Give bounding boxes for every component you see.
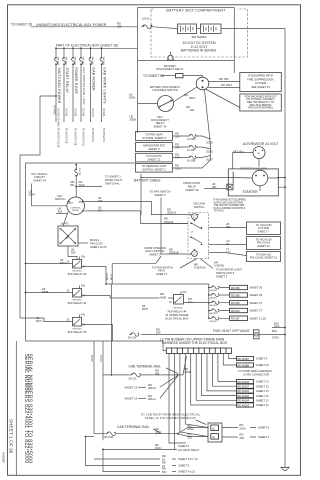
label: TO PUMP AREA HARNESS 31 PIN CONNECTOR <box>238 369 272 377</box>
svg-text:1A-CB6: 1A-CB6 <box>187 138 196 141</box>
label: BATTERY CABLE <box>134 179 161 183</box>
svg-text:827A: 827A <box>60 261 66 265</box>
breaker 2A-CB3 row <box>209 293 263 300</box>
starter solenoid circle <box>252 170 268 191</box>
box: TO VACUUM SYSTEM SHEET 7 <box>247 222 281 235</box>
svg-text:TO SHEET 3: TO SHEET 3 <box>105 175 121 179</box>
svg-text:10A-CB1: 10A-CB1 <box>82 57 85 66</box>
svg-text:35A: 35A <box>58 210 63 214</box>
svg-text:1A-CB8: 1A-CB8 <box>187 160 196 163</box>
svg-text:15A-CB7: 15A-CB7 <box>91 57 94 66</box>
svg-text:2A-CB3: 2A-CB3 <box>210 297 218 300</box>
svg-text:RD 366: RD 366 <box>231 287 240 290</box>
circuit breaker 10A-M (main feed) <box>141 18 153 29</box>
battery disconnect relay coil line <box>138 52 235 61</box>
svg-text:614: 614 <box>188 300 193 304</box>
sheet13 stub A2 <box>125 376 178 391</box>
svg-text:4608: 4608 <box>160 295 166 299</box>
node: TO SHEET 28 (top left) <box>11 23 32 27</box>
svg-text:LOCKABLE SWITCH: LOCKABLE SWITCH <box>152 88 178 92</box>
wire LB 829 below X box <box>68 246 77 260</box>
sidebar: serial numbers column 2 <box>27 354 33 464</box>
wire RD 351A service light row <box>173 90 211 171</box>
svg-text:29: 29 <box>226 242 229 246</box>
svg-text:253B: 253B <box>155 430 161 434</box>
wire: vertical feed x=103 <box>100 341 103 440</box>
wire RD 253 sheet 4 <box>222 433 270 440</box>
label: BATTERY DISCONNECT LOCKABLE SWITCH <box>150 85 181 92</box>
svg-text:CAB TERMINAL RAIL: CAB TERMINAL RAIL <box>117 425 150 429</box>
label: FUEL SHUT OFF VALVE <box>213 329 251 333</box>
wire LB 827C to relay3 <box>20 316 73 323</box>
node: TO SHEET 28 (disconnect) <box>143 74 164 78</box>
svg-text:177: 177 <box>226 250 231 254</box>
svg-text:SYSTEM, SHEET 8: SYSTEM, SHEET 8 <box>142 136 166 140</box>
svg-text:TO SHEET 4,28: TO SHEET 4,28 <box>74 128 77 146</box>
svg-text:G534: G534 <box>272 336 279 340</box>
svg-text:RUN RELAY #2: RUN RELAY #2 <box>68 272 87 276</box>
svg-text:A/C HEAT RELAY: A/C HEAT RELAY <box>178 448 200 452</box>
svg-text:RELAY: RELAY <box>188 184 197 188</box>
sheet box: TO PRE-HEAT SYSTEM SHEET 8 <box>136 132 173 141</box>
svg-text:PIN 9: PIN 9 <box>158 269 165 273</box>
svg-text:RD 481A5: RD 481A5 <box>238 395 250 398</box>
svg-text:KEY SIGNAL: KEY SIGNAL <box>32 172 48 176</box>
svg-text:TO CAB ROOF FROM REAR ELECTRIC: TO CAB ROOF FROM REAR ELECTRICAL <box>141 412 201 416</box>
label: TO SHEET 3 WORK LIGHT SWITCH #1 <box>105 175 122 186</box>
svg-text:481A2: 481A2 <box>148 386 156 390</box>
svg-text:FUEL SHUT OFF VALVE: FUEL SHUT OFF VALVE <box>213 329 251 333</box>
wire box RD 481A3 <box>237 403 270 407</box>
svg-text:IN UPPER FRAME: IN UPPER FRAME <box>166 313 189 317</box>
svg-text:SHEET 21: SHEET 21 <box>148 157 161 161</box>
svg-text:SHEET 3: SHEET 3 <box>178 464 190 468</box>
svg-text:SHEET 4: SHEET 4 <box>258 435 270 439</box>
svg-text:350: 350 <box>224 77 229 81</box>
wire LB 827A <box>25 258 73 265</box>
wire label RD 308 <box>117 22 122 29</box>
wire RD 4608 label <box>160 292 174 299</box>
svg-text:TO SERVICE LIGHT: TO SERVICE LIGHT <box>142 164 167 168</box>
svg-text:87a: 87a <box>81 285 86 288</box>
svg-text:RD 027: RD 027 <box>107 272 109 280</box>
label: TO CAB ROOF FROM REAR ELECTRICAL PANEL <box>141 412 206 424</box>
label: VACUUM SWITCH <box>193 202 205 210</box>
svg-text:RD 401: RD 401 <box>65 108 68 117</box>
label BAT (B+) <box>233 150 244 154</box>
svg-text:351A: 351A <box>226 83 232 87</box>
connector symbol on to-sheet-28 wire <box>161 74 203 78</box>
starter ground stud <box>227 184 233 190</box>
svg-text:RD 481A8: RD 481A8 <box>238 381 250 384</box>
svg-text:481B: 481B <box>185 370 191 374</box>
wire: breaker to battery <box>153 27 178 29</box>
fuel valve symbol <box>253 330 259 339</box>
svg-text:10A-CB9: 10A-CB9 <box>57 57 60 66</box>
wire RD 353A1B <box>161 247 188 254</box>
svg-text:BATTERIES IN SERIES.: BATTERIES IN SERIES. <box>181 49 217 53</box>
svg-text:SHEET 27: SHEET 27 <box>250 301 263 305</box>
svg-text:FIRE SUPPRESSION: FIRE SUPPRESSION <box>247 77 273 81</box>
wire: unswitched electrical box power feed <box>31 26 138 28</box>
wire: contact to lockable switch (diagonal) <box>174 87 197 102</box>
breaker 1A-CB7 row <box>173 143 214 154</box>
label 50-470 above X box <box>61 212 69 226</box>
svg-text:G1A: G1A <box>274 324 280 328</box>
svg-text:BLK: BLK <box>272 329 277 333</box>
net label: UNSWITCHED ELECTRICAL BOX POWER <box>36 23 107 27</box>
wire RD 534 with fuse 5A-C14 <box>128 327 253 339</box>
bus bracket line under header <box>56 47 138 49</box>
vacuum pressure switch G (top) <box>189 214 199 222</box>
wire box RD 481B7 <box>237 356 268 360</box>
svg-text:253A: 253A <box>240 426 246 430</box>
svg-text:KEY SWITCH RUN / ACC: KEY SWITCH RUN / ACC <box>82 68 86 105</box>
svg-text:THE IGNITION PANEL: THE IGNITION PANEL <box>248 107 274 110</box>
svg-text:481A1: 481A1 <box>148 397 156 401</box>
wire: main feed y=284 <box>105 283 209 285</box>
svg-text:253A: 253A <box>188 427 194 431</box>
svg-text:SHEET 2: SHEET 2 <box>149 253 161 257</box>
svg-text:CAB TERMINAL RAIL: CAB TERMINAL RAIL <box>129 364 162 368</box>
sheet box: TO SERVICE LIGHT SWITCH SHEET 2 <box>136 164 173 173</box>
svg-text:SWITCH, SHEET 2: SWITCH, SHEET 2 <box>142 168 166 172</box>
svg-text:RUN RELAY #3: RUN RELAY #3 <box>68 330 87 334</box>
circuit breaker 15A-CB4 column: POWER ROOF <box>72 47 78 145</box>
wire LB 35A left of key switch <box>56 207 68 214</box>
svg-text:SHEET 5: SHEET 5 <box>154 193 166 197</box>
wire LB 827F <box>142 304 148 311</box>
svg-text:SHEET 9: SHEET 9 <box>148 147 160 151</box>
svg-text:SHEET 27: SHEET 27 <box>250 309 263 313</box>
svg-text:PANEL 12 PIN CONNECTOR BLACK: PANEL 12 PIN CONNECTOR BLACK <box>145 416 196 420</box>
svg-text:35AA: 35AA <box>29 193 36 197</box>
svg-text:RD 25: RD 25 <box>91 355 94 362</box>
svg-text:HARVESTER RTC: HARVESTER RTC <box>143 143 166 147</box>
wire box RD 481B8 <box>237 363 270 367</box>
svg-text:BATTERY BOX COMPARTMENT: BATTERY BOX COMPARTMENT <box>166 9 226 13</box>
svg-text:CIRCUIT: CIRCUIT <box>34 175 45 179</box>
svg-text:RELAY: RELAY <box>72 209 79 212</box>
svg-text:827F: 827F <box>142 307 148 311</box>
svg-text:827B: 827B <box>42 290 48 294</box>
svg-text:POWER ROOF: POWER ROOF <box>74 68 78 95</box>
wire box RD 481A5 <box>237 394 270 398</box>
wire: upper cab rail with fuse 5A-C21 <box>103 368 179 380</box>
svg-text:10A-CB3: 10A-CB3 <box>102 57 105 66</box>
svg-text:2A-CB2: 2A-CB2 <box>210 289 218 292</box>
svg-text:SHEET 22: SHEET 22 <box>257 244 270 248</box>
svg-text:RD 400: RD 400 <box>57 108 60 117</box>
svg-text:353A1B: 353A1B <box>169 250 179 254</box>
svg-text:SHEET 10: SHEET 10 <box>256 363 269 367</box>
svg-text:RD 654: RD 654 <box>231 310 240 313</box>
wire LB 827 from key switch <box>85 205 189 223</box>
svg-text:RD: RD <box>219 77 223 81</box>
svg-text:TO SHEET 28: TO SHEET 28 <box>65 128 68 144</box>
wire LB 830 to vacuum system box <box>209 222 247 229</box>
svg-text:SHEET 13: SHEET 13 <box>256 389 269 393</box>
svg-text:10A-C08: 10A-C08 <box>104 436 114 439</box>
wire: vertical feed x=94 <box>91 341 94 434</box>
wire RD 481B to busbar <box>178 356 191 375</box>
svg-text:SHEET 38: SHEET 38 <box>186 188 199 192</box>
svg-text:SWITCH #1: SWITCH #1 <box>105 182 120 186</box>
svg-text:SHEET 26: SHEET 26 <box>250 286 263 290</box>
svg-text:SERIAL NUMBERS 830*4001 TO 830: SERIAL NUMBERS 830*4001 TO 830*5000 <box>27 354 33 464</box>
wire RD 253A sheet 6 <box>222 423 270 430</box>
rotated net labels RD 027 <box>107 272 113 280</box>
wire: relay1 feed y=298 <box>110 297 160 299</box>
svg-text:BAT: BAT <box>69 202 74 205</box>
svg-text:SHEET 34: SHEET 34 <box>154 124 167 128</box>
wire: relay1 out <box>82 296 111 299</box>
svg-text:SHEET 22,25: SHEET 22,25 <box>90 245 107 249</box>
wire: battery interlink <box>197 28 201 30</box>
label: STARTER SOLENOID <box>239 167 272 171</box>
wire: contact down to starter feed (diagonal) <box>186 89 240 112</box>
svg-text:491: 491 <box>70 183 75 187</box>
circuit breaker 10A-CB2 column: START RELAY <box>63 47 69 143</box>
svg-text:SWITCH PIN 9: SWITCH PIN 9 <box>216 271 235 275</box>
svg-text:RD 02: RD 02 <box>111 273 113 280</box>
battery disconnect contact (circle) <box>196 77 209 90</box>
svg-text:LIGHT SWITCH-: LIGHT SWITCH- <box>145 249 165 253</box>
sheet box: TO FAN RTC SHEET 21 <box>136 153 173 162</box>
svg-text:(1): (1) <box>212 436 215 439</box>
battery B1 <box>178 24 197 34</box>
lockable switch (circle with lever) <box>158 96 174 112</box>
svg-text:*3462990*: *3462990* <box>2 452 5 463</box>
svg-text:2A-CB5: 2A-CB5 <box>210 312 218 315</box>
svg-text:SHEET 12: SHEET 12 <box>256 399 269 403</box>
svg-text:PIN C2=26: PIN C2=26 <box>257 241 271 245</box>
wire LB 828 from key switch <box>85 196 189 215</box>
label: BATTERIES <box>192 35 207 39</box>
svg-text:SHEET 13: SHEET 13 <box>256 380 269 384</box>
svg-text:TO FAN SWITCH: TO FAN SWITCH <box>149 190 170 194</box>
wire box RD 481A6 <box>237 389 270 393</box>
vacuum contact arm 1 <box>190 223 202 235</box>
svg-text:ALTERNATOR 24 VOLT: ALTERNATOR 24 VOLT <box>243 142 278 146</box>
svg-text:RD 481A7: RD 481A7 <box>238 386 250 389</box>
connector block (2 pin) <box>208 423 222 442</box>
svg-text:SHEET 11,28: SHEET 11,28 <box>250 316 267 320</box>
run relay #1 <box>67 285 87 306</box>
wire RD 353A10 <box>167 208 177 215</box>
svg-text:SWITCH: SWITCH <box>55 197 66 201</box>
busbar pin drops to cab rail <box>169 353 208 449</box>
svg-text:86 RD/85: 86 RD/85 <box>174 307 184 309</box>
svg-text:SHEET 2: SHEET 2 <box>216 274 228 278</box>
wire: starter outputs to ground bus <box>227 177 286 190</box>
svg-text:SHEET 6: SHEET 6 <box>178 444 190 448</box>
label: FROM INTERIOR LIGHT SWITCH SHEET 2 <box>144 246 166 257</box>
breaker 2A-CB4 row <box>209 301 263 308</box>
lower rail row 1 with fuse 10A-C08 <box>94 427 179 439</box>
svg-text:G: G <box>194 216 196 219</box>
svg-text:PART OF ELECTRICAL BOX (SHEET: PART OF ELECTRICAL BOX (SHEET 28) <box>56 43 118 47</box>
wire: switched power branch to key-signal step <box>20 95 57 318</box>
svg-text:SHEET 12: SHEET 12 <box>256 394 269 398</box>
wire LB 487 to starter solenoid <box>204 182 227 189</box>
wire box RD 481A4 <box>237 398 270 402</box>
svg-text:HARNESS UNDER THE ELECTRICAL B: HARNESS UNDER THE ELECTRICAL BOX <box>162 341 228 345</box>
wire BLK G1A <box>272 321 286 328</box>
svg-text:RD 400D: RD 400D <box>57 117 60 127</box>
sheet13 stub A1 <box>125 376 178 401</box>
svg-text:0.353A10: 0.353A10 <box>194 266 206 270</box>
wire: battery cable to starter <box>140 177 228 179</box>
wire: interior light feed <box>112 256 161 284</box>
svg-text:ELECTRICAL BOX: ELECTRICAL BOX <box>166 316 189 320</box>
svg-text:829: 829 <box>71 251 76 255</box>
label: CAB TERMINAL RAIL (upper) <box>129 364 178 373</box>
wire BLK G534 <box>259 329 286 339</box>
wire: right vertical ground bus <box>284 29 286 468</box>
busbar pin fan to right stack <box>191 353 237 405</box>
svg-text:50-470: 50-470 <box>61 223 69 226</box>
breaker 2A-CB6 row <box>209 316 266 323</box>
svg-text:BATTERY DISCONNECT: BATTERY DISCONNECT <box>150 85 181 89</box>
wire: inner box bottom to busbar left <box>163 341 166 351</box>
run relay #3 <box>67 314 87 335</box>
svg-text:RD 403: RD 403 <box>82 108 85 117</box>
wire: lockable switch to left bus <box>138 103 158 105</box>
svg-text:TO VACUUM: TO VACUUM <box>256 223 273 227</box>
run relay #4 <box>169 291 187 310</box>
label: TO INTERIOR LIGHT SWITCH PIN 9 SHEET 2 <box>216 268 242 279</box>
svg-text:SHEET 4,6,21: SHEET 4,6,21 <box>178 470 196 474</box>
svg-text:5A-C14: 5A-C14 <box>128 337 137 340</box>
svg-text:830: 830 <box>226 225 231 229</box>
svg-text:15A-CB4: 15A-CB4 <box>74 57 77 66</box>
svg-text:BATTERIES: BATTERIES <box>192 35 207 39</box>
circuit breaker 15A-CB7 column: CAB POWER <box>89 47 95 142</box>
note: 24 volt dc system <box>181 41 217 53</box>
circuit breaker 10A-CB9 column: SWITCHED POWER <box>55 47 61 147</box>
svg-text:TO SHEET 3: TO SHEET 3 <box>91 128 94 143</box>
lower rail row 3 <box>103 443 200 452</box>
svg-text:FROM INTERIOR: FROM INTERIOR <box>144 246 166 250</box>
svg-text:87a: 87a <box>81 256 86 259</box>
wire box RD 481A8 <box>237 379 270 383</box>
svg-text:87a: 87a <box>81 314 86 317</box>
wire LB 827B <box>25 287 73 294</box>
svg-text:10A-CB2: 10A-CB2 <box>65 57 68 66</box>
breaker 2A-CB2 row <box>209 285 263 292</box>
svg-text:350A: 350A <box>129 96 135 100</box>
battery box compartment (dashed) <box>151 7 248 57</box>
svg-text:487: 487 <box>212 185 217 189</box>
label BCK3-1 PIN C2-50 SHEET 22,25 <box>78 238 107 249</box>
vacuum pressure switch G (bottom) <box>189 249 197 256</box>
lower rail row 4 <box>94 454 198 461</box>
svg-text:SHEET 6: SHEET 6 <box>258 426 270 430</box>
wire: alternator B+ down to starter <box>233 153 259 170</box>
circuit breaker 10A-CB1 column: KEY SWITCH RUN / ACC <box>80 47 86 146</box>
svg-text:TO INTERIOR LIGHT: TO INTERIOR LIGHT <box>216 268 242 272</box>
sidebar: serial numbers column 1 <box>23 354 29 464</box>
wire: relay3 out <box>82 325 113 342</box>
sheet box: HARVESTER RTC SHEET 9 <box>136 143 173 152</box>
wire RD 353A19 <box>161 217 188 224</box>
svg-text:TO SHEET 3,4,5: TO SHEET 3,4,5 <box>82 128 85 147</box>
box: TO WCA3-16 PIN C2=26 SHEET 22 <box>247 237 281 250</box>
vacuum contact arm 2 <box>190 237 202 246</box>
wire RD 350 to fire box <box>209 77 240 82</box>
svg-text:RD 2,44: RD 2,44 <box>91 108 94 117</box>
svg-text:TO FAN SWITCH: TO FAN SWITCH <box>152 265 173 269</box>
svg-text:TO SHEET 28: TO SHEET 28 <box>143 74 164 78</box>
svg-text:529: 529 <box>175 135 180 139</box>
wire RD 614 relay4 out <box>184 297 209 304</box>
svg-text:253: 253 <box>188 436 193 440</box>
svg-text:SHEET 34: SHEET 34 <box>33 179 46 183</box>
wire RD 253 to connector <box>178 433 208 440</box>
svg-text:344: 344 <box>175 146 180 150</box>
svg-text:308: 308 <box>117 25 122 29</box>
wire: fan switch drop <box>160 198 162 255</box>
wire LB 35AA from key signal <box>29 184 68 206</box>
svg-text:87a: 87a <box>183 291 188 294</box>
svg-text:TO WCA3-16: TO WCA3-16 <box>255 237 272 241</box>
svg-text:2A-CB6: 2A-CB6 <box>210 320 218 323</box>
breaker 2A-CB5 row <box>209 308 263 315</box>
note box: for machines without F/S <box>240 94 281 111</box>
svg-text:SHEET 13: SHEET 13 <box>125 385 138 389</box>
alternator <box>253 147 265 159</box>
svg-text:PIN C2=28, SHEET 21: PIN C2=28, SHEET 21 <box>250 256 278 260</box>
svg-text:351A: 351A <box>189 96 195 100</box>
busbar <box>166 348 231 353</box>
wire OR 0.353A9 to interior light <box>200 259 225 269</box>
wire: battery compartment loop (top) <box>138 8 235 73</box>
lower rail row 5 <box>85 436 190 468</box>
svg-text:10A-M: 10A-M <box>142 18 149 21</box>
svg-text:(1): (1) <box>212 427 215 430</box>
svg-text:RD 368: RD 368 <box>231 294 240 297</box>
svg-text:351A: 351A <box>175 167 181 171</box>
svg-text:RD 481A6: RD 481A6 <box>238 390 250 393</box>
label: BATTERY DISCONNECT RELAY <box>156 64 183 71</box>
wire RD 351A to fire box <box>208 83 240 88</box>
svg-text:491A: 491A <box>79 183 85 187</box>
svg-text:RD 481A4: RD 481A4 <box>238 400 250 403</box>
label: KEY DISCONNECT RELAY SHEET 34 <box>151 115 169 129</box>
svg-text:SHEET 5: SHEET 5 <box>156 272 168 276</box>
svg-text:350B: 350B <box>130 118 136 122</box>
svg-text:RD 481B8: RD 481B8 <box>238 364 250 367</box>
svg-text:SYSTEM: SYSTEM <box>258 226 270 230</box>
svg-text:TO PIN 5.: TO PIN 5. <box>214 210 225 213</box>
svg-text:827: 827 <box>98 209 103 213</box>
relay block (X box) <box>58 226 78 246</box>
svg-text:SHEET 6: SHEET 6 <box>256 357 268 361</box>
svg-text:RD 656: RD 656 <box>231 302 240 305</box>
svg-text:TO SHEET 3,3,28: TO SHEET 3,3,28 <box>57 128 60 148</box>
wire RD 253A to connector <box>178 424 208 434</box>
svg-text:0.353A9: 0.353A9 <box>214 264 225 268</box>
svg-text:STC: STC <box>79 202 84 204</box>
svg-text:TO SHEET 3: TO SHEET 3 <box>102 128 105 143</box>
svg-text:FROM START: FROM START <box>183 181 201 185</box>
svg-text:VACUUM: VACUUM <box>193 202 205 206</box>
svg-text:RUN RELAY #1: RUN RELAY #1 <box>68 301 87 305</box>
label: STARTER <box>242 190 258 194</box>
lower rail row 6 <box>102 449 196 474</box>
svg-text:353A10: 353A10 <box>167 211 177 215</box>
